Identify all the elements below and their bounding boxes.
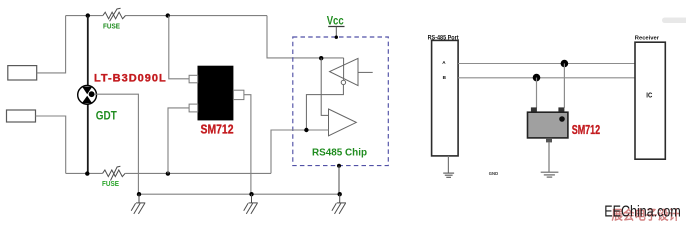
fuse F1 slash [110, 8, 121, 21]
SM712 pin left [531, 107, 537, 112]
RS485 chip dashed box [293, 37, 389, 166]
wire driver input line [271, 130, 329, 173]
ground symbol 1 [131, 194, 145, 214]
node A1 [86, 13, 90, 17]
ground symbol 2 [244, 194, 258, 214]
svg-text:GDT: GDT [96, 109, 117, 123]
GDT center electrode dot [89, 91, 95, 97]
node G1 [137, 192, 141, 196]
wire GDT bottom lead [87, 104, 89, 173]
node B2 [166, 171, 170, 175]
SM712 pin1 dot [559, 116, 565, 122]
node A2 [166, 13, 170, 17]
svg-text:SM712: SM712 [201, 123, 234, 137]
enable bubble [341, 80, 345, 84]
ground symbol port [443, 173, 454, 177]
wire A line right segment [126, 15, 268, 17]
wire SM712 pin2 to B line [168, 108, 189, 173]
TVS SM712 body right [528, 112, 568, 138]
wire SM712 to ground [548, 142, 550, 171]
ground symbol SM712 [541, 172, 559, 177]
GDT top electrode [82, 87, 92, 95]
wire port ground stub [447, 156, 449, 173]
wire B line left segment [66, 172, 103, 174]
SM712 pin2 [189, 104, 198, 112]
driver buffer U1B [329, 109, 357, 136]
svg-text:GND: GND [489, 171, 498, 176]
node chip ground [337, 164, 341, 168]
wire T1 to A line [37, 16, 66, 73]
svg-text:Receiver: Receiver [635, 36, 660, 42]
fuse F2 slash [111, 166, 121, 180]
node Vcc [335, 36, 338, 39]
wire A to SM712 [563, 64, 565, 108]
wire A line left segment [66, 15, 103, 17]
wire T2 to B line [36, 116, 66, 173]
SM712 pin1 [189, 75, 198, 83]
fuse F1 zigzag [103, 12, 126, 19]
TVS SM712 body [198, 66, 234, 121]
svg-text:IC: IC [646, 90, 653, 99]
ground symbol 3 [332, 194, 346, 214]
node bus A [561, 60, 569, 68]
wire GDT top lead [87, 16, 89, 86]
wire ground bus [139, 193, 340, 195]
svg-text:FUSE: FUSE [103, 22, 120, 31]
node bus B [533, 74, 541, 82]
svg-text:Vcc: Vcc [327, 14, 344, 28]
node G3 [338, 192, 342, 196]
svg-text:SM712: SM712 [572, 123, 601, 137]
svg-text:FUSE: FUSE [102, 179, 119, 188]
wire B line right segment [125, 172, 271, 174]
wire SM712 pin3 to ground [244, 95, 251, 195]
wire bus A [458, 63, 635, 65]
RS-485 port box [432, 40, 459, 155]
GDT bottom electrode [82, 96, 92, 104]
SM712 pin right [558, 107, 564, 112]
terminal T2 [7, 110, 36, 122]
wire bus B [458, 77, 635, 79]
wire B to SM712 [536, 78, 538, 108]
wire Vcc to chip [335, 27, 337, 38]
fuse F2 zigzag [103, 170, 126, 177]
wire node to driver top input [321, 58, 328, 115]
wire receiver output [358, 71, 373, 73]
SM712 bottom pin [546, 138, 552, 143]
node driver input [304, 128, 308, 132]
wire A to RS485 chip [267, 16, 344, 58]
node G2 [249, 192, 253, 196]
node B1 [85, 171, 89, 175]
wire receiver enable vertical [343, 58, 345, 80]
receiver box [635, 42, 665, 159]
svg-text:LT-B3D090L: LT-B3D090L [94, 72, 167, 84]
svg-text:RS485 Chip: RS485 Chip [312, 146, 367, 158]
SM712 pin3 [233, 90, 244, 99]
GDT tube body [78, 86, 97, 105]
wire GDT center to ground [94, 94, 138, 194]
node RS485 in [319, 56, 323, 60]
Vcc bar [328, 26, 344, 28]
terminal T1 [8, 66, 37, 80]
receiver buffer U1A [330, 58, 358, 85]
wire A node to SM712 pin1 [169, 16, 189, 79]
wire chip to ground line [338, 166, 340, 194]
watermark smudge [662, 18, 686, 24]
wire enable to driver input [306, 85, 343, 130]
svg-text:EEChina.com: EEChina.com [604, 204, 681, 221]
